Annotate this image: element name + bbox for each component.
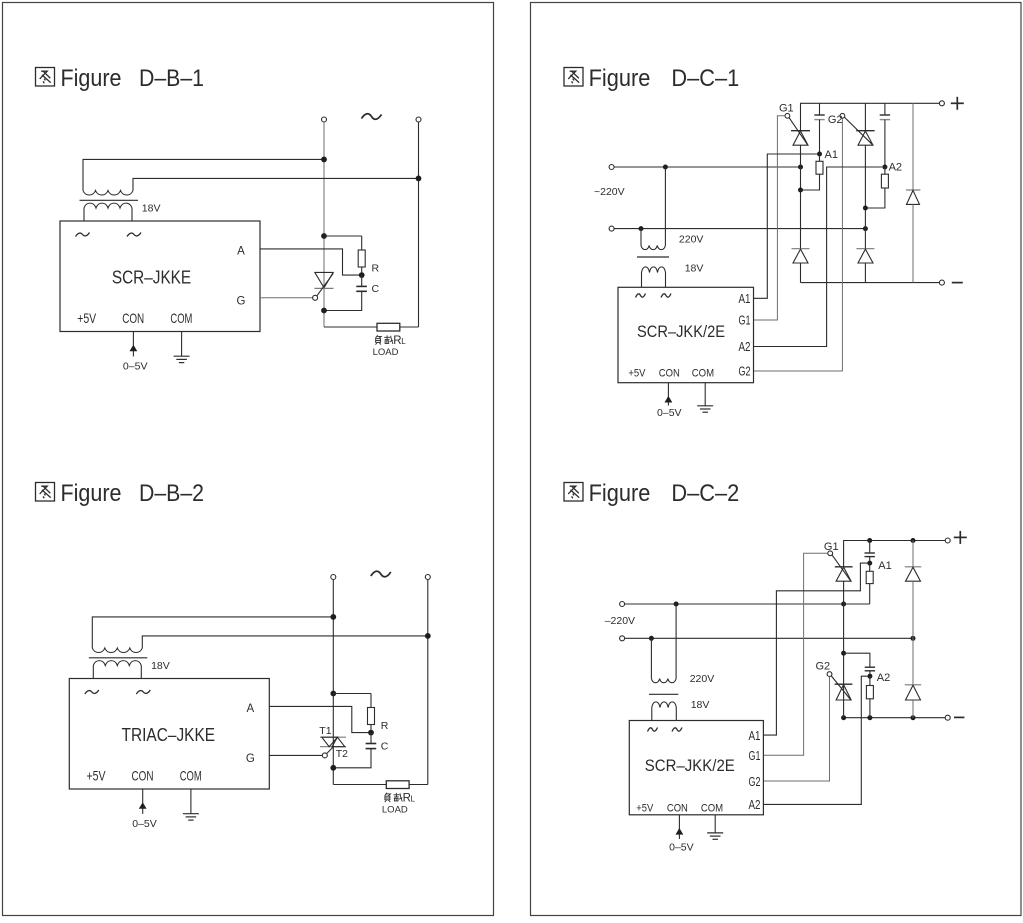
pin +5V label (D-C-2) [636, 802, 654, 814]
wire A2 to module (D-C-1) [754, 167, 883, 347]
svg-text:D–C–1: D–C–1 [671, 65, 739, 92]
svg-text:~220V: ~220V [594, 186, 625, 198]
wire bottom rail (D-B-1) [324, 326, 419, 328]
svg-text:A2: A2 [877, 672, 890, 684]
gate terminal G1 circle (D-C-2) [828, 551, 851, 581]
transformer T1 secondary winding (D-B-1) [84, 203, 132, 221]
triac (D-B-2) [320, 737, 346, 747]
node: cathode junction (D-B-1) [321, 308, 327, 314]
svg-text:G1: G1 [739, 313, 751, 327]
pin A2 label (D-C-2) [749, 798, 761, 812]
svg-text:LOAD: LOAD [373, 347, 399, 358]
transformer primary 220V (D-C-1) [641, 167, 665, 250]
transformer T1 primary winding (D-B-1) [83, 191, 133, 196]
control input arrow 0-5V (D-C-1) [665, 383, 673, 406]
pin +5V label (D-C-1) [628, 368, 646, 380]
label C (D-B-1) [372, 283, 380, 295]
pin CON label (D-B-1) [122, 310, 144, 326]
label G1 node (D-C-2) [824, 541, 839, 553]
node A2 (D-C-1) [882, 165, 887, 170]
svg-text:COM: COM [180, 767, 202, 783]
label LOAD (D-B-2) [382, 805, 408, 816]
label fuzai RL (D-B-2) [385, 793, 416, 805]
wire: right AC vertical (D-B-2) [427, 580, 429, 785]
label T1 (D-B-2) [319, 725, 331, 737]
plus sign (D-C-2) [954, 531, 967, 544]
svg-text:G2: G2 [739, 365, 751, 379]
wire A1 to module (D-C-1) [754, 154, 817, 298]
transformer core bar (D-C-2) [649, 693, 678, 695]
svg-text:–220V: –220V [605, 615, 635, 627]
wire SCR2 cell tap (D-C-2) [841, 651, 870, 668]
svg-text:G1: G1 [749, 749, 761, 763]
module TRIAC-JKKE box [69, 679, 269, 790]
wire: left AC vertical (D-B-1) [323, 122, 325, 327]
module AC input tildes (D-B-2) [85, 690, 151, 694]
pin A2 label (D-C-1) [739, 340, 751, 354]
plus sign (D-C-1) [951, 97, 964, 110]
label ~220V (D-C-1) [594, 186, 625, 198]
wire pin G to gate (D-B-1) [260, 297, 313, 299]
svg-text:SCR–JKKE: SCR–JKKE [112, 266, 191, 287]
wire G2 to module (D-C-2) [763, 677, 829, 782]
wire pin G to gate (D-B-2) [269, 754, 322, 756]
title Figure D-C-1 [564, 65, 739, 92]
pin G label (D-B-2) [246, 753, 255, 765]
svg-text:G1: G1 [824, 541, 839, 553]
svg-text:A2: A2 [739, 340, 751, 354]
label 0-5V (D-B-2) [132, 818, 157, 830]
snubber resistor R2 (D-C-1) [863, 167, 889, 211]
thyristor V1 (D-C-2) [835, 567, 853, 718]
svg-text:L: L [411, 795, 416, 804]
svg-text:+5V: +5V [628, 368, 646, 380]
wire pin A to RC node (D-B-1) [260, 249, 362, 275]
wire G2 to module (D-C-1) [754, 118, 843, 371]
svg-text:Figure: Figure [589, 65, 651, 92]
wire pin A to RC node (D-B-2) [269, 706, 371, 732]
AC tilde symbol (D-B-2) [371, 571, 391, 577]
wire AC line 1 (D-C-2) [625, 602, 870, 607]
svg-text:Figure: Figure [61, 65, 122, 92]
svg-text:CON: CON [659, 368, 680, 380]
snubber capacitor C1 (D-C-2) [865, 541, 875, 564]
gate terminal circle (D-B-1) [313, 273, 334, 300]
label T2 (D-B-2) [336, 748, 348, 760]
minus sign (D-C-1) [952, 282, 963, 284]
AC source terminal left (D-B-2) [331, 575, 336, 580]
DC- terminal (D-C-1) [939, 280, 944, 285]
control input arrow 0-5V (D-B-1) [130, 332, 138, 357]
pin +5V label (D-B-1) [77, 310, 96, 326]
svg-text:A2: A2 [889, 162, 902, 174]
panel frame right [531, 3, 1022, 916]
svg-text:0–5V: 0–5V [669, 842, 694, 854]
node A1 (D-C-1) [817, 152, 822, 157]
title Figure D-C-2 [564, 480, 739, 507]
pin G label (D-B-1) [237, 296, 246, 308]
capacitor C (D-B-1) [324, 275, 367, 310]
wire - rail (D-C-1) [801, 282, 940, 284]
title Figure D-B-1 [36, 65, 205, 92]
wire bottom rail (D-B-2) [333, 784, 428, 786]
DC+ terminal (D-C-1) [939, 101, 944, 106]
transformer T2 primary winding (D-B-2) [92, 648, 142, 653]
svg-text:220V: 220V [690, 673, 715, 685]
svg-text:LOAD: LOAD [382, 805, 408, 816]
svg-text:A1: A1 [878, 560, 891, 572]
control input arrow 0-5V (D-C-2) [676, 815, 684, 839]
svg-text:COM: COM [692, 368, 714, 380]
module name SCR-JKK/2E (D-C-1) [637, 323, 725, 341]
wire: left AC vertical (D-B-2) [332, 580, 334, 785]
node: T1 junction (D-B-2) [330, 691, 371, 697]
svg-text:Figure: Figure [61, 480, 122, 507]
node: R-C junction (D-B-2) [368, 730, 374, 736]
svg-text:A1: A1 [739, 292, 751, 306]
svg-text:G: G [237, 296, 246, 308]
module AC input tildes (D-C-1) [636, 294, 672, 298]
pin G1 label (D-C-2) [749, 749, 761, 763]
transformer T1 core bar (D-B-1) [80, 199, 139, 201]
pin CON label (D-C-2) [667, 802, 688, 814]
svg-text:0–5V: 0–5V [123, 361, 148, 373]
svg-text:D–B–2: D–B–2 [139, 480, 204, 507]
minus sign (D-C-2) [954, 716, 964, 718]
pin A1 label (D-C-1) [739, 292, 751, 306]
label R (D-B-2) [381, 720, 389, 732]
label 18V (D-B-1) [142, 203, 161, 215]
pin COM label (D-B-1) [170, 310, 192, 326]
svg-text:Figure: Figure [589, 480, 651, 507]
svg-text:G2: G2 [828, 114, 843, 126]
transformer secondary 18V (D-C-1) [642, 267, 666, 287]
label G1 node (D-C-1) [779, 103, 794, 115]
svg-text:COM: COM [170, 310, 192, 326]
ground symbol (D-C-1) [697, 383, 713, 413]
pin A label (D-B-1) [237, 246, 245, 258]
svg-text:G: G [246, 753, 255, 765]
gate terminal G2 circle (D-C-1) [840, 113, 873, 144]
panel frame left [3, 3, 494, 916]
pin G2 label (D-C-1) [739, 365, 751, 379]
transformer secondary 18V (D-C-2) [652, 702, 677, 721]
pin CON label (D-C-1) [659, 368, 680, 380]
svg-text:TRIAC–JKKE: TRIAC–JKKE [122, 724, 216, 745]
wire AC line 2 (D-C-2) [625, 636, 916, 641]
svg-text:A2: A2 [749, 798, 761, 812]
svg-text:L: L [401, 337, 406, 346]
wire: second horizontal to transformer primary (D-B-1) [133, 176, 421, 191]
AC source terminal left (D-B-1) [322, 117, 327, 122]
snubber capacitor C2 (D-C-1) [880, 103, 890, 167]
thyristor V1 (D-C-1) [791, 131, 810, 249]
wire G1 to module (D-C-1) [754, 116, 785, 320]
label R (D-B-1) [372, 263, 380, 275]
wire + rail (D-C-1) [801, 103, 940, 130]
snubber resistor R1 (D-C-2) [866, 563, 873, 604]
module SCR-JKKE box [60, 221, 260, 332]
diode VD1 (D-C-1) [792, 249, 810, 283]
svg-text:18V: 18V [151, 660, 170, 672]
svg-text:A1: A1 [825, 149, 838, 161]
module SCR-JKK/2E box (D-C-2) [629, 721, 763, 815]
pin +5V label (D-B-2) [87, 767, 106, 783]
svg-text:+5V: +5V [77, 310, 96, 326]
transformer T2 secondary winding (D-B-2) [93, 661, 141, 679]
DC+ terminal (D-C-2) [945, 538, 950, 543]
module SCR-JKK/2E box (D-C-1) [618, 287, 754, 382]
AC input terminal 1 (D-C-2) [620, 602, 625, 607]
pin CON label (D-B-2) [132, 767, 154, 783]
module name SCR-JKKE [112, 266, 191, 287]
svg-text:0–5V: 0–5V [657, 407, 682, 419]
pin COM label (D-C-1) [692, 368, 714, 380]
load resistor RL (D-B-2) [386, 781, 409, 789]
pin G1 label (D-C-1) [739, 313, 751, 327]
label A1 node (D-C-1) [825, 149, 838, 161]
svg-text:CON: CON [667, 802, 688, 814]
svg-text:COM: COM [701, 802, 723, 814]
pin A1 label (D-C-2) [749, 729, 761, 743]
wire: right AC vertical (D-B-1) [418, 122, 420, 327]
module AC input tildes (D-B-1) [76, 233, 142, 237]
svg-text:+5V: +5V [636, 802, 654, 814]
wire AC line 1 (D-C-1) [614, 165, 803, 170]
label 18V (D-C-1) [685, 263, 704, 275]
pin COM label (D-C-2) [701, 802, 723, 814]
svg-text:SCR–JKK/2E: SCR–JKK/2E [637, 323, 725, 341]
svg-text:CON: CON [132, 767, 154, 783]
freewheel diode VD3 (D-C-1) [906, 103, 920, 282]
pin COM label (D-B-2) [180, 767, 202, 783]
snubber resistor R1 (D-C-1) [798, 154, 823, 193]
snubber capacitor C1 (D-C-1) [814, 103, 824, 154]
label LOAD (D-B-1) [373, 347, 399, 358]
resistor R (D-B-1) [358, 236, 365, 275]
label 18V (D-B-2) [151, 660, 170, 672]
pin G2 label (D-C-2) [749, 775, 761, 789]
AC tilde symbol (D-B-1) [362, 114, 382, 120]
load resistor RL (D-B-1) [377, 323, 400, 331]
svg-text:0–5V: 0–5V [132, 818, 157, 830]
diode VD1 (D-C-2) [905, 541, 921, 639]
label -220V (D-C-2) [605, 615, 635, 627]
resistor R (D-B-2) [368, 694, 375, 733]
svg-text:D–B–1: D–B–1 [139, 65, 204, 92]
gate terminal circle (D-B-2) [322, 747, 333, 758]
AC input terminal 2 (D-C-1) [609, 226, 614, 231]
svg-text:R: R [372, 263, 380, 275]
wire A1 to module (D-C-2) [763, 563, 867, 735]
AC source terminal right (D-B-2) [425, 575, 430, 580]
thyristor V2 (D-C-2) [835, 684, 853, 700]
transformer core bar (D-C-1) [637, 256, 669, 258]
node: T2 junction (D-B-2) [330, 765, 336, 771]
svg-text:T2: T2 [336, 748, 348, 760]
label 0-5V (D-C-2) [669, 842, 694, 854]
pin A label (D-B-2) [246, 703, 254, 715]
label G2 node (D-C-1) [828, 114, 843, 126]
svg-text:SCR–JKK/2E: SCR–JKK/2E [645, 757, 735, 775]
svg-text:T1: T1 [319, 725, 331, 737]
label A2 node (D-C-2) [877, 672, 890, 684]
svg-text:18V: 18V [691, 699, 710, 711]
DC- terminal (D-C-2) [945, 715, 950, 720]
transformer primary 220V (D-C-2) [651, 604, 676, 683]
svg-text:G1: G1 [779, 103, 794, 115]
gate terminal G2 circle (D-C-2) [827, 672, 851, 700]
thyristor V2 (D-C-1) [856, 103, 874, 248]
module AC input tildes (D-C-2) [648, 728, 683, 732]
svg-text:G2: G2 [749, 775, 761, 789]
svg-text:CON: CON [122, 310, 144, 326]
wire G1 to module (D-C-2) [763, 553, 827, 755]
AC source terminal right (D-B-1) [416, 117, 421, 122]
svg-text:18V: 18V [142, 203, 161, 215]
diode VD2 (D-C-2) [905, 638, 921, 717]
control input arrow 0-5V (D-B-2) [139, 789, 147, 814]
node A2 (D-C-2) [867, 674, 872, 679]
svg-text:18V: 18V [685, 263, 704, 275]
wire: upper horizontal to transformer primary (D-B-2) [92, 614, 336, 648]
label 18V (D-C-2) [691, 699, 710, 711]
label 0-5V (D-B-1) [123, 361, 148, 373]
capacitor C (D-B-2) [333, 733, 376, 768]
wire A2 to module (D-C-2) [763, 676, 867, 804]
transformer T2 core bar (D-B-2) [89, 657, 148, 659]
svg-text:C: C [381, 741, 389, 753]
label G2 node (D-C-2) [816, 661, 831, 673]
ground symbol (D-C-2) [707, 815, 723, 840]
label C (D-B-2) [381, 741, 389, 753]
node: anode junction (D-B-1) [321, 233, 362, 239]
svg-text:D–C–2: D–C–2 [671, 480, 739, 507]
svg-text:R: R [381, 720, 389, 732]
AC input terminal 2 (D-C-2) [620, 636, 625, 641]
snubber capacitor C2 (D-C-2) [865, 667, 875, 676]
svg-text:+5V: +5V [87, 767, 106, 783]
wire + rail (D-C-2) [844, 538, 946, 567]
svg-text:A: A [246, 703, 254, 715]
wire AC line 2 (D-C-1) [614, 226, 868, 231]
svg-text:A: A [237, 246, 245, 258]
svg-text:220V: 220V [679, 234, 704, 246]
diode VD2 (D-C-1) [856, 249, 874, 283]
wire: upper horizontal to transformer primary (D-B-1) [83, 157, 327, 191]
module name TRIAC-JKKE [122, 724, 216, 745]
gate terminal G1 circle (D-C-1) [785, 113, 808, 144]
snubber resistor R2 (D-C-2) [866, 676, 873, 718]
svg-text:A1: A1 [749, 729, 761, 743]
label 0-5V (D-C-1) [657, 407, 682, 419]
label A1 node (D-C-2) [878, 560, 891, 572]
svg-text:G2: G2 [816, 661, 831, 673]
label 220V (D-C-2) [690, 673, 715, 685]
AC input terminal 1 (D-C-1) [609, 165, 614, 170]
wire - rail (D-C-2) [841, 715, 945, 720]
node: R-C junction (D-B-1) [359, 272, 365, 278]
node A1 (D-C-2) [867, 561, 872, 566]
wire: second horizontal to transformer primary (D-B-2) [142, 633, 430, 648]
label 220V (D-C-1) [679, 234, 704, 246]
thyristor SCR (D-B-1) [315, 272, 334, 288]
label fuzai RL (D-B-1) [375, 335, 406, 347]
title Figure D-B-2 [36, 480, 205, 507]
label A2 node (D-C-1) [889, 162, 902, 174]
svg-text:C: C [372, 283, 380, 295]
ground symbol (D-B-1) [174, 332, 190, 363]
module name SCR-JKK/2E (D-C-2) [645, 757, 735, 775]
ground symbol (D-B-2) [183, 789, 199, 820]
